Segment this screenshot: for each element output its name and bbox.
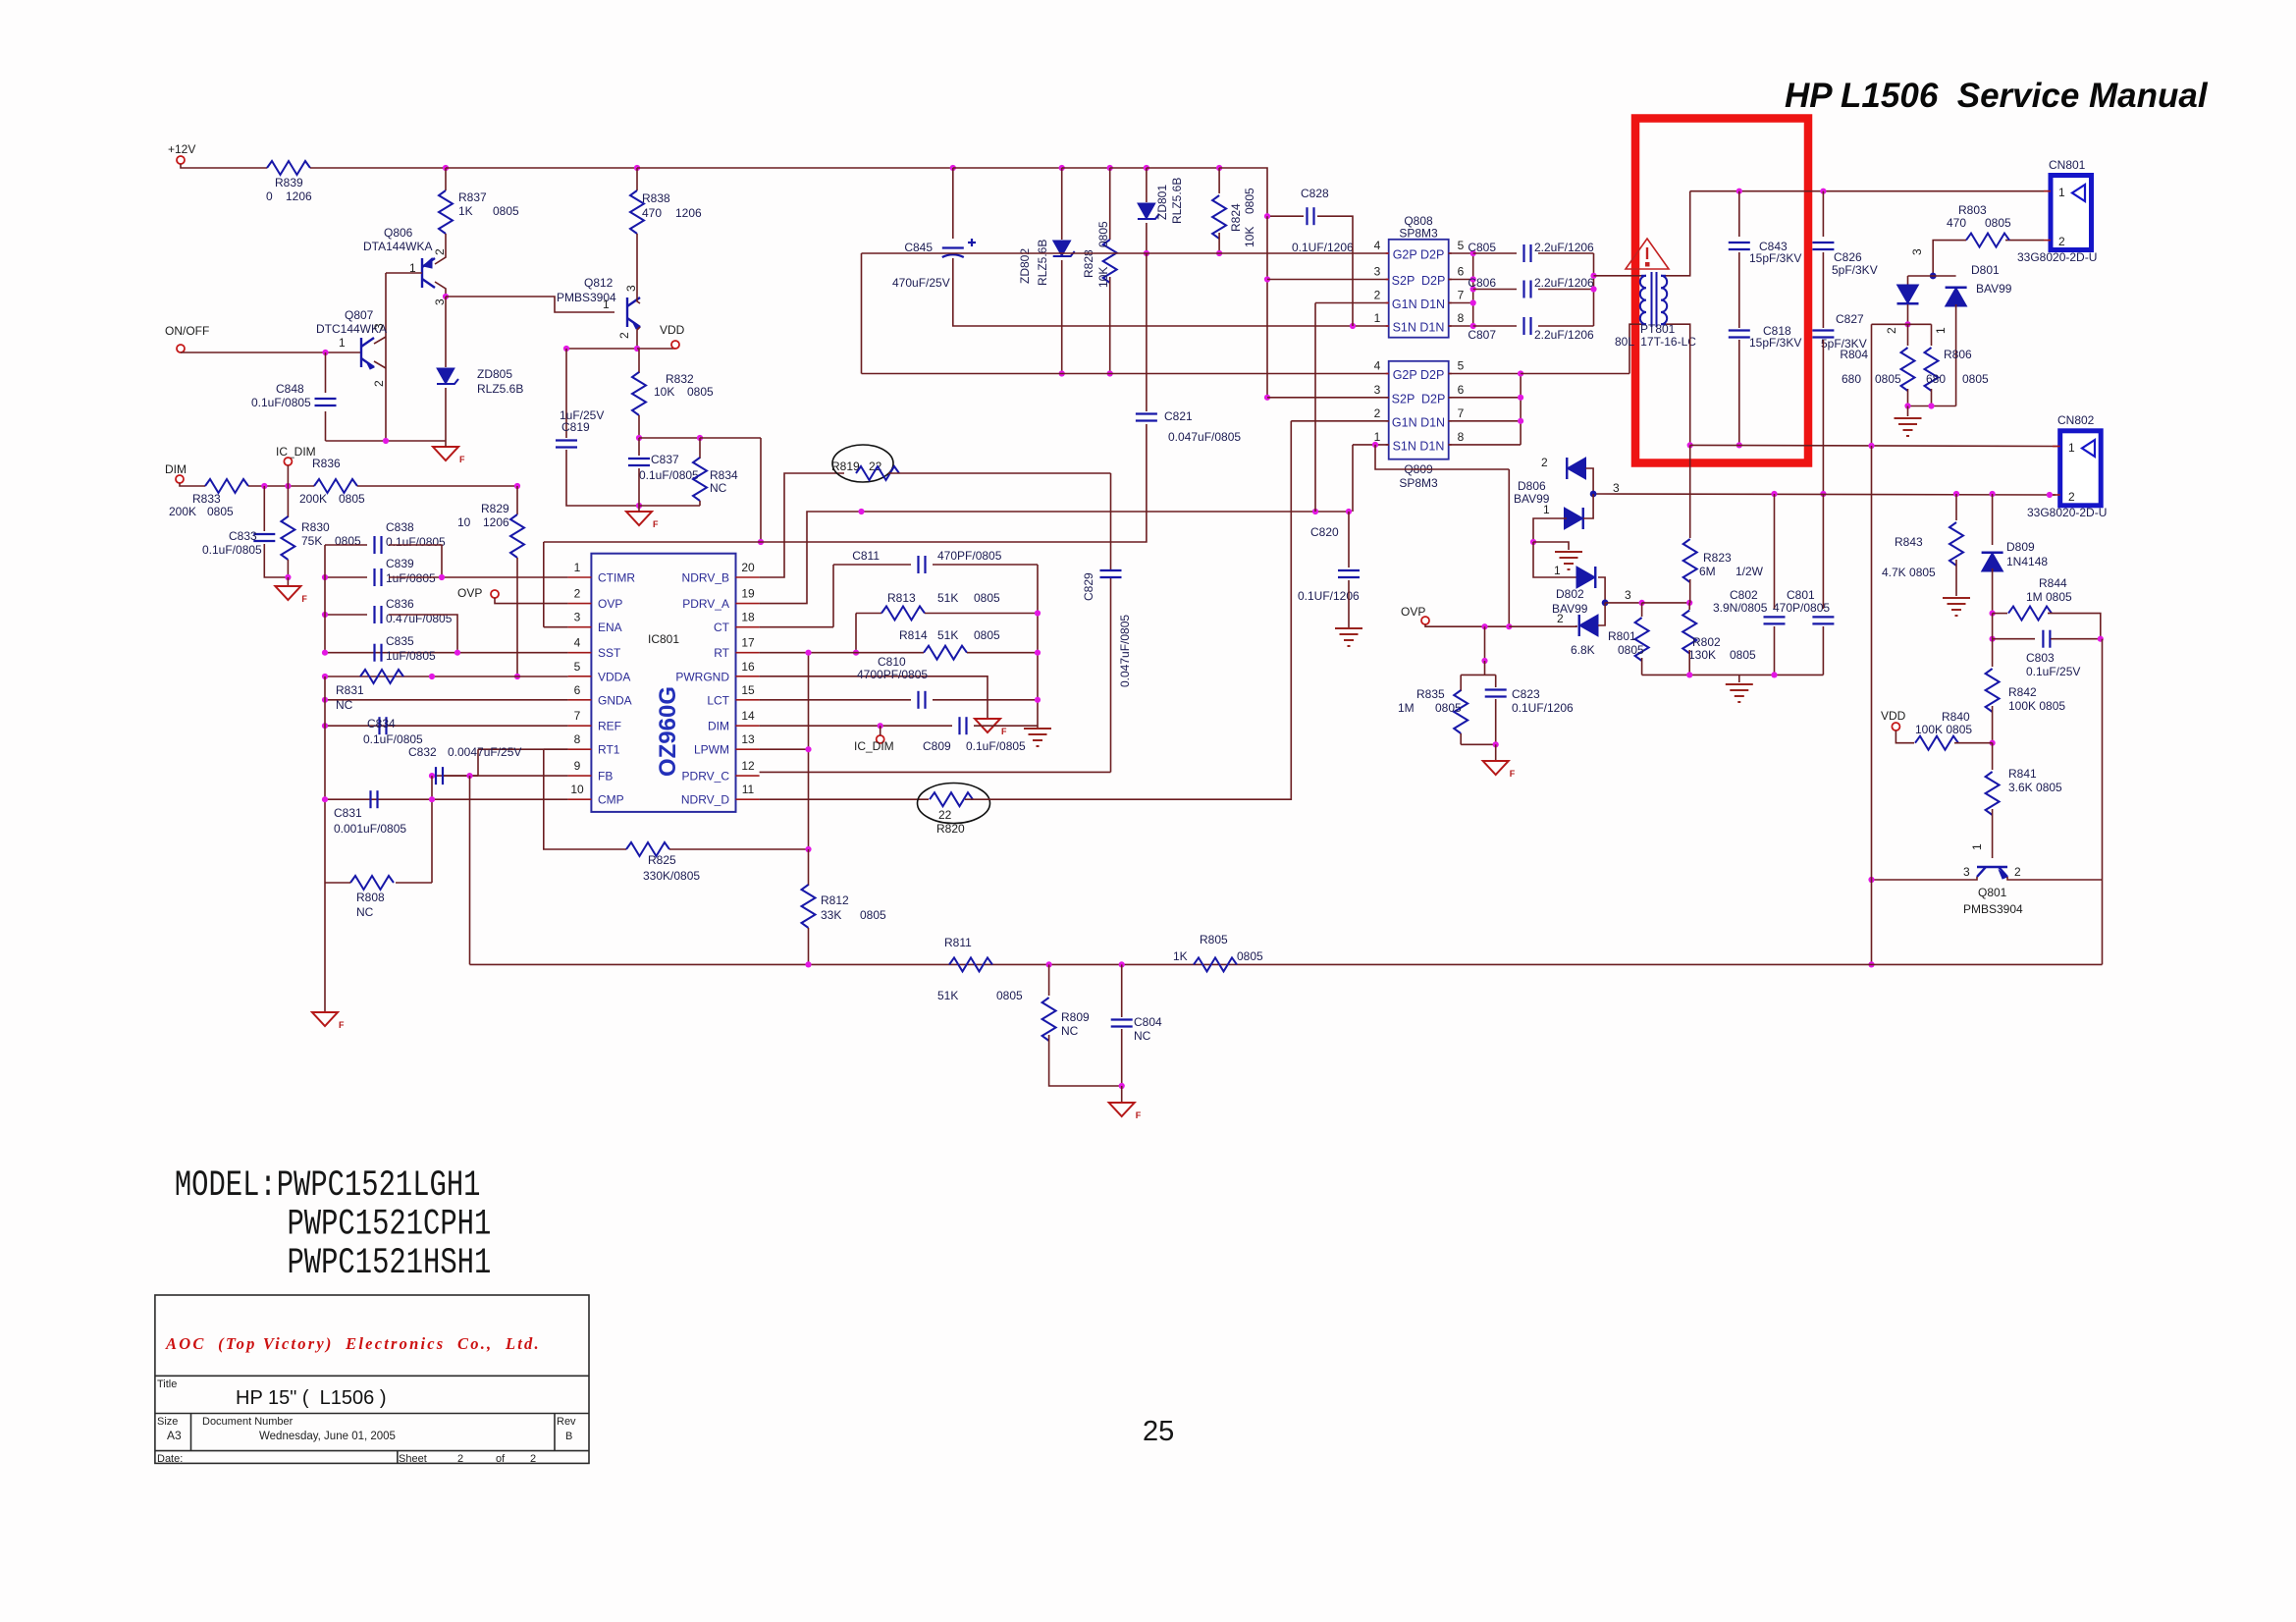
- svg-text:R842: R842: [2008, 685, 2037, 699]
- resistor R832: [632, 372, 646, 415]
- Q808 right pin 7: [1449, 302, 1452, 304]
- junction ZD801 / pin4 row: [1144, 250, 1149, 256]
- svg-text:PDRV_A: PDRV_A: [682, 597, 729, 611]
- junction R835 box top: [1481, 658, 1487, 664]
- junction R824 / pin4 row: [1216, 250, 1222, 256]
- wire C836 right to SST row: [389, 615, 457, 653]
- wire VDD to R840: [1896, 730, 1914, 743]
- wire ground rail: [1642, 674, 1824, 676]
- svg-text:S2P D2P: S2P D2P: [1392, 392, 1446, 405]
- MODEL list text: [175, 1164, 491, 1283]
- wire C821 top lead: [1146, 253, 1148, 411]
- resistor R836: [314, 479, 357, 493]
- diode D806 upper: [1567, 458, 1585, 479]
- wire C838 right wrap down: [389, 545, 442, 577]
- svg-text:0.001uF/0805: 0.001uF/0805: [334, 822, 406, 836]
- svg-text:1M 0805: 1M 0805: [2026, 590, 2072, 604]
- svg-text:C838: C838: [386, 520, 414, 534]
- wire R814 right: [967, 652, 1038, 654]
- svg-text:0805: 0805: [1618, 643, 1644, 657]
- wire R819 to riser: [888, 472, 1111, 474]
- svg-text:470PF/0805: 470PF/0805: [937, 549, 1002, 563]
- svg-text:2: 2: [530, 1453, 536, 1465]
- wire R803 to D801: [1933, 241, 1966, 276]
- svg-text:1N4148: 1N4148: [2006, 555, 2048, 568]
- resistor R812: [802, 885, 816, 928]
- wire ZD801 top lead: [1146, 168, 1148, 202]
- junction pin2 net R843: [1953, 491, 1959, 497]
- wire transformer primary bottom: [1629, 324, 1641, 373]
- svg-text:15pF/3KV: 15pF/3KV: [1749, 251, 1801, 265]
- junction x1291 C828: [1264, 213, 1270, 219]
- svg-text:OVP: OVP: [1401, 605, 1425, 619]
- resistor R808: [350, 876, 394, 890]
- svg-text:BAV99: BAV99: [1976, 282, 2012, 296]
- wire Q808 right rail: [1472, 253, 1474, 326]
- svg-text:0805: 0805: [1875, 372, 1901, 386]
- svg-text:200K: 200K: [299, 492, 327, 506]
- port OVP 2: [1421, 617, 1429, 624]
- CN802 pin 1: [2053, 446, 2060, 448]
- svg-text:G2P D2P: G2P D2P: [1393, 368, 1445, 382]
- node D806 pin3: [1590, 491, 1597, 498]
- svg-text:IC_DIM: IC_DIM: [276, 445, 316, 459]
- svg-text:0805: 0805: [1985, 216, 2011, 230]
- resistor R819: [856, 466, 899, 480]
- svg-text:10: 10: [457, 515, 471, 529]
- svg-text:R825: R825: [648, 853, 676, 867]
- port OVP: [491, 590, 499, 598]
- pin 18 stub: [736, 626, 760, 628]
- svg-text:100K 0805: 100K 0805: [2008, 699, 2065, 713]
- svg-text:REF: REF: [598, 720, 621, 733]
- red highlight box around transformer PT801: [1635, 119, 1808, 463]
- wire R829 top lead: [516, 486, 518, 514]
- svg-text:PWRGND: PWRGND: [675, 670, 729, 683]
- wire Q808 pin2 row: [1315, 302, 1389, 304]
- svg-text:1: 1: [603, 297, 610, 311]
- wire C803 right: [2051, 638, 2101, 640]
- svg-text:RT: RT: [714, 646, 729, 660]
- svg-text:2: 2: [1541, 456, 1548, 469]
- pin 12 stub: [736, 775, 760, 777]
- svg-text:G1N D1N: G1N D1N: [1392, 415, 1445, 429]
- svg-text:1: 1: [339, 336, 346, 350]
- svg-text:1: 1: [1970, 843, 1984, 850]
- svg-text:13: 13: [741, 732, 755, 746]
- wire left rail upper: [324, 545, 326, 653]
- svg-text:CT: CT: [714, 621, 730, 634]
- wire Q812 emitter: [637, 327, 640, 349]
- diode D806 lower: [1565, 508, 1583, 529]
- wire Q809 pin7 wire: [1449, 420, 1521, 422]
- wire R823 bottom lead: [1689, 579, 1691, 603]
- wire Q812 collector: [637, 290, 640, 303]
- svg-text:D801: D801: [1971, 263, 2000, 277]
- resistor R828: [1103, 240, 1117, 283]
- svg-text:R814: R814: [899, 628, 928, 642]
- resistor R830: [281, 516, 294, 560]
- svg-text:0.47uF/0805: 0.47uF/0805: [386, 612, 453, 625]
- wire C818 bottom lead: [1738, 340, 1740, 445]
- junction Q808 rail y284.5: [1470, 276, 1476, 282]
- wire C836 row left: [325, 614, 367, 616]
- resistor R840: [1915, 736, 1958, 750]
- wire R802 top lead: [1688, 603, 1690, 610]
- svg-text:C823: C823: [1512, 687, 1540, 701]
- svg-text:0805: 0805: [1435, 701, 1462, 715]
- wire rail to transformer bottom: [1521, 373, 1629, 375]
- junction bottom bus left leg: [1868, 961, 1874, 967]
- svg-text:R801: R801: [1608, 629, 1636, 643]
- junction ground rail C802: [1771, 672, 1777, 677]
- svg-text:3: 3: [372, 323, 386, 330]
- svg-text:Date:: Date:: [157, 1453, 183, 1465]
- resistor R841: [1986, 772, 2000, 815]
- wire down to R823: [1689, 445, 1691, 538]
- wire R824 top lead: [1218, 168, 1220, 193]
- wire left leg x1906 upper: [1871, 324, 1873, 446]
- svg-text:DIM: DIM: [165, 462, 187, 476]
- wire ground stem R804: [1907, 406, 1909, 417]
- svg-text:19: 19: [741, 587, 755, 601]
- pin 8 stub: [568, 748, 592, 750]
- wire C837 bottom lead: [638, 468, 640, 506]
- wire OVP port stub 2: [1425, 624, 1428, 626]
- wire C823 bottom lead: [1495, 699, 1497, 744]
- capacitor C803: [2043, 630, 2050, 648]
- svg-text:200K: 200K: [169, 505, 196, 518]
- svg-text:Sheet: Sheet: [399, 1453, 427, 1465]
- junction R825 / R812: [805, 846, 811, 852]
- junction wrap line at x775: [758, 539, 764, 545]
- junction Q808 rail y258: [1470, 250, 1476, 256]
- svg-text:C804: C804: [1134, 1015, 1162, 1029]
- svg-text:IC801: IC801: [648, 632, 679, 646]
- wire PDRV_C row: [760, 771, 1111, 773]
- junction top bus at ZD802: [1059, 165, 1065, 171]
- wire C839 row right: [389, 576, 568, 578]
- junction R834 top: [697, 435, 703, 441]
- junction rail VDDA: [322, 674, 328, 679]
- junction IC_DIM: [285, 483, 291, 489]
- resistor R801: [1635, 618, 1649, 661]
- svg-text:14: 14: [741, 709, 755, 723]
- wire R839 to junction: [310, 167, 446, 169]
- svg-text:R830: R830: [301, 520, 330, 534]
- svg-text:F: F: [339, 1020, 345, 1030]
- port ON/OFF: [177, 345, 185, 352]
- Q809 right pin 5: [1449, 373, 1452, 375]
- svg-text:0.1UF/1206: 0.1UF/1206: [1512, 701, 1574, 715]
- Q809 left pin 1: [1386, 444, 1389, 446]
- svg-text:2: 2: [617, 332, 631, 339]
- junction bottom rail R804: [1904, 403, 1910, 408]
- transistor Q812 PMBS3904: [627, 297, 640, 327]
- wire secondary bottom down: [1666, 324, 1690, 445]
- IC U801 OZ960G box: [591, 554, 735, 812]
- capacitor C805: [1524, 244, 1531, 262]
- svg-text:Wednesday, June 01, 2005: Wednesday, June 01, 2005: [259, 1431, 396, 1442]
- wire RT1 loop down: [544, 749, 626, 849]
- wire ON/OFF to Q807 base: [181, 351, 361, 353]
- pin 3 stub: [568, 626, 592, 628]
- svg-text:F: F: [1510, 769, 1516, 779]
- junction pin2 net near CN802: [2047, 492, 2053, 498]
- pin 14 stub: [736, 725, 760, 727]
- transistor Q806 DTA144WKA: [422, 258, 435, 288]
- svg-text:0805: 0805: [339, 492, 365, 506]
- wire R834 top lead: [699, 438, 701, 459]
- svg-text:D802: D802: [1556, 587, 1584, 601]
- wire top bus corner down x1291: [1219, 168, 1267, 216]
- wire R812 to bottom bus: [808, 928, 810, 964]
- svg-text:Q801: Q801: [1978, 886, 2007, 899]
- junction C833 top: [261, 483, 267, 489]
- warning triangle symbol: [1626, 239, 1669, 269]
- svg-text:680: 680: [1842, 372, 1861, 386]
- resistor R804: [1901, 348, 1915, 391]
- wire D802 node to R801: [1605, 602, 1642, 604]
- svg-text:D809: D809: [2006, 540, 2035, 554]
- svg-text:2.2uF/1206: 2.2uF/1206: [1534, 241, 1594, 254]
- junction RT row: [853, 650, 859, 656]
- wire right leg x2141: [2102, 639, 2104, 965]
- svg-text:F: F: [1001, 727, 1007, 736]
- svg-text:R804: R804: [1840, 348, 1868, 361]
- wire C806 right: [1538, 289, 1594, 291]
- wire R828 bottom lead: [1109, 277, 1111, 374]
- wire top bus segment 5: [1062, 167, 1110, 169]
- wire Q807 emitter join: [374, 361, 386, 368]
- svg-text:VDD: VDD: [1881, 709, 1906, 723]
- wire C802 bottom lead: [1774, 626, 1776, 675]
- junction C819 rail / ground: [636, 503, 642, 509]
- wire Q808 pin7 stub wire: [1449, 302, 1473, 304]
- resistor R839: [267, 161, 310, 175]
- svg-text:0.047uF/0805: 0.047uF/0805: [1168, 430, 1241, 444]
- wire C848 top lead: [325, 352, 327, 393]
- resistor R831: [360, 670, 403, 683]
- junction ON/OFF at C848: [322, 350, 328, 355]
- wire C832 to corner: [444, 775, 478, 777]
- junction pin2 net D809: [1990, 491, 1996, 497]
- Q809 right pin 8: [1449, 444, 1452, 446]
- wire ZD802 bottom lead: [1061, 260, 1063, 374]
- capacitor C828: [1308, 207, 1314, 225]
- wire R838 top lead: [636, 168, 638, 190]
- wire C828 left: [1267, 215, 1304, 217]
- svg-text:OVP: OVP: [457, 586, 482, 600]
- wire R840 to node: [1954, 742, 1993, 744]
- svg-text:1: 1: [1374, 311, 1381, 325]
- svg-text:10K: 10K: [1243, 227, 1256, 247]
- resistor R814: [924, 646, 967, 660]
- svg-text:C831: C831: [334, 806, 362, 820]
- svg-text:PWPC1521CPH1: PWPC1521CPH1: [288, 1203, 492, 1244]
- svg-text:0805: 0805: [974, 591, 1000, 605]
- wire R802 bottom lead: [1688, 650, 1690, 675]
- svg-text:100K 0805: 100K 0805: [1915, 723, 1972, 736]
- svg-text:8: 8: [1458, 430, 1465, 444]
- svg-text:C833: C833: [229, 529, 257, 543]
- wire VDDA row to pin5: [325, 676, 568, 677]
- svg-text:470: 470: [1947, 216, 1966, 230]
- capacitor C832: [436, 767, 443, 784]
- svg-text:NC: NC: [356, 905, 374, 919]
- wire Q808 pin3 row: [1267, 279, 1389, 281]
- junction C836 / SST row: [454, 650, 460, 656]
- svg-text:+12V: +12V: [168, 142, 195, 156]
- svg-text:1uF/0805: 1uF/0805: [386, 649, 436, 663]
- wire REF row to pin7: [325, 725, 568, 727]
- svg-text:1206: 1206: [675, 206, 702, 220]
- svg-text:130K: 130K: [1688, 648, 1716, 662]
- svg-text:4700PF/0805: 4700PF/0805: [857, 668, 928, 681]
- svg-text:10: 10: [570, 783, 584, 796]
- svg-text:0805: 0805: [974, 628, 1000, 642]
- wire S1N riser to PDRV_A line: [1352, 445, 1354, 512]
- wire R806 top lead: [1931, 324, 1933, 346]
- wire D809 top lead: [1992, 494, 1994, 545]
- junction D801 / R804: [1904, 321, 1910, 327]
- oval highlight around R819: [832, 445, 893, 482]
- wire Q809 pin6 wire: [1449, 397, 1521, 399]
- svg-text:0.1UF/1206: 0.1UF/1206: [1292, 241, 1354, 254]
- wire R835 C823 top rail: [1461, 674, 1496, 676]
- svg-text:R840: R840: [1942, 710, 1970, 724]
- junction R828 / G2P line: [1107, 370, 1113, 376]
- wire C843 to C818: [1738, 252, 1740, 328]
- wire C828 right down to S1N: [1317, 216, 1353, 326]
- junction top bus at R837: [443, 165, 449, 171]
- pin 15 stub: [736, 699, 760, 701]
- svg-text:ZD805: ZD805: [477, 367, 512, 381]
- wire C843 top lead: [1738, 191, 1740, 237]
- diode D802 upper: [1576, 567, 1595, 588]
- wire C838 row left: [325, 544, 367, 546]
- wire FB riser to bottom bus: [469, 776, 471, 964]
- wire into box: [1484, 661, 1486, 675]
- junction rail R813: [1035, 610, 1041, 616]
- resistor R809: [1042, 998, 1056, 1041]
- wire OVP line to D802: [1509, 625, 1576, 626]
- junction rail LCT: [1035, 697, 1041, 703]
- svg-text:2: 2: [1885, 327, 1898, 334]
- svg-text:1K: 1K: [1173, 949, 1188, 963]
- junction rail GNDA: [322, 697, 328, 703]
- svg-text:PWPC1521HSH1: PWPC1521HSH1: [288, 1242, 492, 1283]
- wire secondary top to HV bus: [1666, 191, 1690, 276]
- svg-text:20: 20: [741, 561, 755, 574]
- svg-text:Q807: Q807: [345, 308, 374, 322]
- Q809 left pin 4: [1386, 373, 1389, 375]
- wire top bus segment 7: [1147, 167, 1219, 169]
- wire R813 left: [856, 613, 881, 615]
- wire Q809 right rail: [1520, 374, 1522, 445]
- wire top bus segment 2: [446, 167, 637, 169]
- wire OVP port stub: [495, 598, 499, 604]
- svg-text:1: 1: [1374, 430, 1381, 444]
- wire LCT row: [760, 699, 911, 701]
- svg-text:0.1uF/0805: 0.1uF/0805: [386, 535, 446, 549]
- capacitor C821: [1136, 414, 1157, 421]
- zener ZD802 RLZ5.6B: [1053, 241, 1075, 256]
- Q808 right pin 6: [1449, 279, 1452, 281]
- wire ZD805 top lead: [445, 297, 447, 367]
- junction VDD line / C819: [563, 346, 569, 351]
- junction emitter rail: [383, 438, 389, 444]
- svg-text:3: 3: [1374, 265, 1381, 279]
- svg-text:ZD801: ZD801: [1155, 185, 1169, 220]
- svg-text:SST: SST: [598, 646, 621, 660]
- svg-text:C829: C829: [1082, 572, 1095, 601]
- svg-text:C845: C845: [904, 241, 933, 254]
- svg-text:9: 9: [574, 759, 581, 773]
- svg-text:470uF/25V: 470uF/25V: [892, 276, 950, 290]
- transistor Q807 DTC144WKA: [361, 338, 374, 367]
- wire R808 right: [396, 882, 432, 884]
- capacitor C810: [919, 691, 926, 709]
- junction bottom bus R812: [805, 961, 811, 967]
- wire C819 bottom to rail: [566, 450, 639, 506]
- junction top bus at C845: [950, 165, 956, 171]
- junction R809 C804: [1119, 1083, 1125, 1089]
- svg-text:R809: R809: [1061, 1010, 1090, 1024]
- junction D806 ground tap: [1530, 539, 1536, 545]
- svg-text:0.1uF/0805: 0.1uF/0805: [363, 732, 423, 746]
- wire R830 top lead: [287, 486, 289, 517]
- wire C826 to C827: [1822, 252, 1824, 328]
- svg-text:G1N D1N: G1N D1N: [1392, 297, 1445, 311]
- wire C845 bottom to Q808 S1N: [953, 258, 1389, 326]
- wire Q801 collector: [1872, 877, 1978, 880]
- svg-text:0805: 0805: [1237, 949, 1263, 963]
- wire x1291 vertical: [1266, 216, 1268, 398]
- svg-text:C802: C802: [1730, 588, 1758, 602]
- pin 6 stub: [568, 699, 592, 701]
- svg-text:0.1uF/25V: 0.1uF/25V: [2026, 665, 2080, 678]
- capacitor C848: [315, 399, 337, 405]
- diode D801 right half: [1946, 288, 1967, 306]
- junction R802 R823: [1686, 600, 1692, 606]
- pin 13 stub: [736, 748, 760, 750]
- svg-text:1: 1: [2058, 186, 2065, 199]
- wire HV bus to CN801 pin1: [1690, 190, 2051, 192]
- wire R835 C823 bottom rail: [1461, 743, 1496, 745]
- wire R837 to Q806 collector: [445, 234, 447, 251]
- wire C839 row left: [325, 576, 367, 578]
- svg-text:R844: R844: [2039, 576, 2067, 590]
- svg-text:C809: C809: [923, 739, 951, 753]
- wire D801 left top: [1907, 276, 1909, 288]
- wire to box corner right: [700, 437, 761, 439]
- wire R830 bottom lead: [287, 560, 289, 577]
- junction Q808 rail y294.5: [1470, 286, 1476, 292]
- junction top bus at ZD801: [1144, 165, 1149, 171]
- svg-text:LCT: LCT: [707, 693, 729, 707]
- wire Q808 pin8 stub wire: [1449, 325, 1473, 327]
- resistor R843: [1949, 522, 1963, 566]
- wire R835 bottom lead: [1460, 733, 1462, 744]
- svg-text:C832: C832: [408, 745, 437, 759]
- svg-text:C811: C811: [852, 549, 880, 563]
- wire CMP row to pin10: [325, 798, 568, 800]
- Q808 right pin 5: [1449, 252, 1452, 254]
- svg-text:R812: R812: [821, 893, 849, 907]
- Q808 left pin 2: [1386, 302, 1389, 304]
- svg-text:25: 25: [1143, 1416, 1174, 1447]
